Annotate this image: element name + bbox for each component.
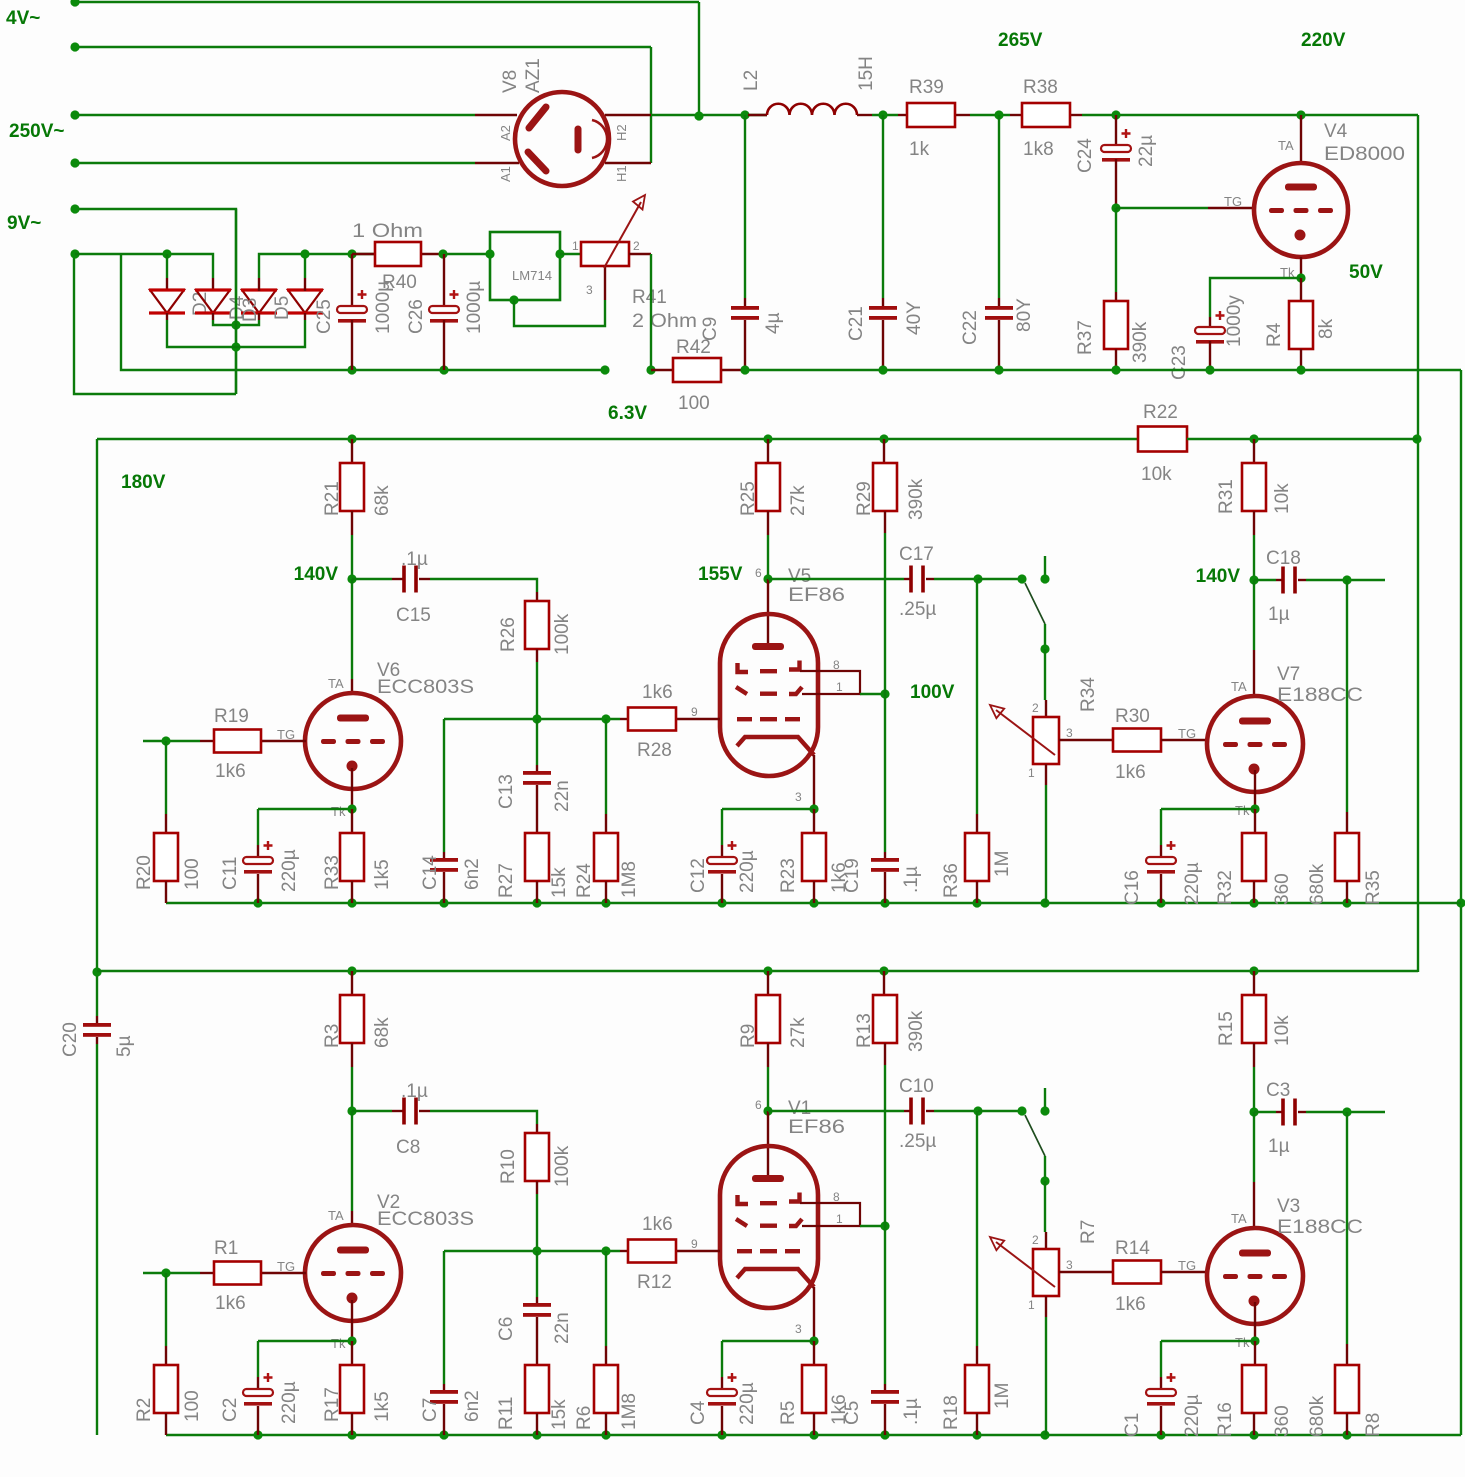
svg-text:C14: C14 — [420, 855, 441, 890]
svg-text:R24: R24 — [574, 863, 595, 898]
svg-text:V4: V4 — [1324, 121, 1348, 142]
wire cap to R26 — [430, 579, 537, 592]
svg-text:C18: C18 — [1266, 548, 1301, 569]
resistor R40 1 Ohm — [352, 221, 443, 293]
net 0V rail wire y=903 — [166, 902, 1461, 904]
svg-text:50V: 50V — [1349, 262, 1383, 283]
terminal 9V~ b — [70, 249, 79, 258]
capacitor C20 5µ — [60, 1016, 135, 1057]
wire blade to pot — [1044, 1156, 1046, 1181]
junction pot top — [1040, 1176, 1049, 1185]
capacitor C23 1000y — [1169, 295, 1245, 380]
svg-text:40Y: 40Y — [904, 301, 925, 335]
wire R39 to R38 — [970, 114, 1010, 116]
svg-text:1: 1 — [836, 1212, 843, 1226]
wire — [1253, 1112, 1255, 1182]
junction pentode anode — [763, 574, 772, 583]
junction C13 top — [532, 714, 541, 723]
svg-text:100k: 100k — [552, 613, 573, 655]
junction rail x=1254 — [1249, 434, 1258, 443]
wire V4 grid — [1116, 207, 1208, 209]
svg-text:R12: R12 — [637, 1272, 672, 1293]
resistor R24 1M8 — [574, 719, 640, 903]
resistor R10 100k — [498, 1124, 573, 1194]
junction rail x=1045 — [1040, 1430, 1049, 1439]
svg-text:1: 1 — [836, 680, 843, 694]
wire pentode g2 g1 tie — [800, 671, 860, 694]
svg-text:D5: D5 — [272, 296, 293, 320]
svg-text:80Y: 80Y — [1014, 298, 1035, 332]
svg-text:1k6: 1k6 — [1115, 1294, 1146, 1315]
resistor R28 1k6 grid stopper — [620, 682, 720, 761]
svg-text:R42: R42 — [676, 337, 711, 358]
svg-text:2 Ohm: 2 Ohm — [632, 311, 697, 332]
wire — [884, 694, 886, 852]
svg-text:1: 1 — [1028, 766, 1035, 780]
junction rail x=884 — [879, 434, 888, 443]
svg-text:R41: R41 — [632, 287, 667, 308]
net 250V~ wire top — [75, 114, 475, 116]
svg-text:R34: R34 — [1078, 677, 1099, 712]
resistor R5 1k6 — [778, 1341, 850, 1435]
junction rail x=885 — [880, 898, 889, 907]
capacitor C10 .25µ coupling — [768, 1076, 978, 1152]
svg-text:C22: C22 — [960, 310, 981, 345]
junction rail x=258 — [253, 898, 262, 907]
svg-text:R29: R29 — [854, 481, 875, 516]
svg-text:1M: 1M — [992, 851, 1013, 877]
wire — [1045, 785, 1047, 903]
wire R29 to screen node — [884, 533, 886, 694]
wire — [443, 719, 445, 852]
diode D4 — [195, 288, 248, 320]
svg-text:ECC803S: ECC803S — [377, 1209, 474, 1230]
svg-text:220µ: 220µ — [1182, 862, 1203, 905]
svg-text:R25: R25 — [738, 481, 759, 516]
capacitor C4 220µ — [688, 1341, 758, 1435]
junction C22 top — [994, 110, 1003, 119]
svg-text:.1µ: .1µ — [401, 549, 428, 570]
svg-text:C17: C17 — [899, 544, 934, 565]
junction V7 cathode — [1250, 1336, 1259, 1345]
junction B+ heater drop — [694, 111, 703, 120]
triode V3 E188CC — [1207, 1112, 1363, 1350]
svg-text:TA: TA — [328, 1208, 344, 1223]
junction C9 top — [740, 110, 749, 119]
svg-text:390k: 390k — [906, 478, 927, 520]
capacitor C3 1µ output coupling — [1254, 1080, 1385, 1157]
svg-text:1k6: 1k6 — [1115, 762, 1146, 783]
svg-text:A1: A1 — [498, 166, 513, 182]
wire R31 to output anode — [1253, 535, 1255, 580]
svg-text:V3: V3 — [1277, 1196, 1300, 1217]
svg-text:27k: 27k — [788, 1017, 809, 1048]
svg-text:V8: V8 — [500, 70, 521, 93]
wire C20 to bottom rail — [96, 1044, 98, 1435]
capacitor C24 22µ — [1075, 115, 1157, 208]
capacitor C19 .1µ — [842, 694, 922, 903]
svg-text:180V: 180V — [121, 472, 166, 493]
wire — [352, 1110, 392, 1112]
svg-text:6: 6 — [755, 566, 762, 580]
svg-text:R15: R15 — [1216, 1011, 1237, 1046]
svg-text:27k: 27k — [788, 485, 809, 516]
svg-text:6n2: 6n2 — [462, 858, 483, 890]
wire R40 to LM714 — [443, 253, 490, 255]
wire AC1 to D1 D2 anodes — [75, 254, 213, 278]
net B+ wire after rectifier — [651, 114, 767, 116]
junction anode node — [347, 574, 356, 583]
svg-text:R10: R10 — [498, 1149, 519, 1184]
junction output node — [1342, 1107, 1351, 1116]
svg-text:R6: R6 — [574, 1406, 595, 1430]
svg-text:10k: 10k — [1141, 464, 1172, 485]
potentiometer R41 2 Ohm — [572, 195, 697, 332]
resistor R35 680k — [1307, 580, 1384, 905]
resistor R23 1k6 — [778, 809, 850, 903]
svg-text:C5: C5 — [842, 1401, 863, 1425]
wire R41 pin2 drop — [650, 254, 652, 370]
resistor R39 1k — [898, 77, 970, 160]
svg-text:LM714: LM714 — [512, 269, 552, 283]
svg-text:1: 1 — [1028, 1298, 1035, 1312]
wire — [536, 1251, 538, 1297]
wire LM714 adj to R41 pin3 — [514, 300, 605, 326]
junction — [1111, 365, 1120, 374]
resistor R17 1k5 — [322, 1341, 393, 1435]
svg-text:4V~: 4V~ — [6, 8, 40, 29]
junction LM714 in — [485, 249, 494, 258]
potentiometer R34 volume — [990, 649, 1113, 903]
svg-text:680k: 680k — [1307, 863, 1328, 905]
svg-text:TA: TA — [1231, 1211, 1247, 1226]
wire — [1044, 1181, 1046, 1232]
junction output anode — [1249, 1107, 1258, 1116]
svg-text:R28: R28 — [637, 740, 672, 761]
svg-text:360: 360 — [1272, 1405, 1293, 1437]
svg-text:R37: R37 — [1075, 320, 1096, 355]
svg-text:AZ1: AZ1 — [523, 58, 544, 93]
wire cap to R26 — [430, 1111, 537, 1124]
wire cathode row V6 — [258, 808, 352, 810]
switch upper contact stub — [1044, 556, 1046, 579]
junction pot top — [1040, 644, 1049, 653]
wire — [934, 1110, 978, 1112]
capacitor C16 220µ — [1122, 809, 1203, 905]
svg-text:Tk: Tk — [1235, 1335, 1250, 1350]
svg-text:220µ: 220µ — [737, 1382, 758, 1425]
svg-text:C8: C8 — [396, 1137, 420, 1158]
junction — [1296, 365, 1305, 374]
svg-text:R23: R23 — [778, 858, 799, 893]
wire D1 anode lead — [166, 254, 168, 278]
wire — [1346, 1112, 1348, 1344]
svg-text:1k6: 1k6 — [215, 1293, 246, 1314]
wire D1 D4 cathodes — [166, 313, 168, 320]
svg-text:TA: TA — [1231, 679, 1247, 694]
resistor R31 10k — [1216, 439, 1293, 535]
svg-text:1000µ: 1000µ — [464, 281, 485, 334]
junction grid input — [161, 736, 170, 745]
wire cathode row V6 — [258, 1340, 352, 1342]
svg-text:C15: C15 — [396, 605, 431, 626]
wire — [976, 1111, 978, 1346]
svg-text:100: 100 — [678, 393, 710, 414]
svg-text:R16: R16 — [1215, 1402, 1236, 1437]
svg-text:.1µ: .1µ — [401, 1081, 428, 1102]
wire — [860, 1225, 885, 1227]
svg-text:3: 3 — [1066, 1258, 1073, 1272]
wire heater drop from 4V~ to junction — [698, 2, 700, 116]
capacitor C22 80Y — [960, 298, 1035, 370]
junction rail x=606 — [601, 1430, 610, 1439]
junction D5 anode — [300, 249, 309, 258]
svg-text:TA: TA — [1278, 138, 1294, 153]
net 265V wire to V4 — [1082, 114, 1418, 116]
switch upper contact stub — [1044, 1088, 1046, 1111]
svg-text:H1: H1 — [614, 165, 629, 182]
svg-text:TA: TA — [328, 676, 344, 691]
junction anode node — [347, 1106, 356, 1115]
svg-text:1k6: 1k6 — [642, 1214, 673, 1235]
svg-text:R22: R22 — [1143, 402, 1178, 423]
svg-text:TG: TG — [277, 727, 295, 742]
wire — [1045, 1317, 1047, 1435]
svg-text:R1: R1 — [214, 1238, 238, 1259]
junction rail x=885 — [880, 1430, 889, 1439]
wire R25 to pentode anode — [767, 1067, 769, 1111]
svg-text:9V~: 9V~ — [7, 213, 41, 234]
triode V7 E188CC — [1207, 580, 1363, 818]
capacitor C6 22n — [496, 1251, 573, 1365]
svg-text:C20: C20 — [60, 1022, 81, 1057]
junction rail x=1254 — [1249, 898, 1258, 907]
svg-text:9: 9 — [691, 705, 698, 719]
svg-text:220µ: 220µ — [1182, 1394, 1203, 1437]
junction pentode cathode — [809, 804, 818, 813]
svg-text:3: 3 — [1066, 726, 1073, 740]
svg-text:C12: C12 — [688, 858, 709, 893]
svg-text:390k: 390k — [906, 1010, 927, 1052]
wire — [1306, 579, 1385, 581]
wire — [768, 1110, 904, 1112]
wire pentode g2 g1 tie — [800, 1203, 860, 1226]
wire cathode row pentode — [722, 1340, 814, 1342]
junction rail x=1347 — [1342, 898, 1351, 907]
svg-text:1µ: 1µ — [1268, 1136, 1290, 1157]
junction bridge AC mid — [231, 320, 240, 329]
svg-text:1 Ohm: 1 Ohm — [352, 221, 423, 242]
svg-text:2: 2 — [1032, 701, 1039, 715]
capacitor C13 22n — [496, 719, 573, 833]
wire — [143, 1272, 200, 1274]
resistor R15 10k — [1216, 971, 1293, 1067]
wire 50V node to C23 — [1210, 278, 1301, 317]
svg-text:C16: C16 — [1122, 870, 1143, 905]
svg-text:140V: 140V — [1196, 566, 1241, 587]
net 9V~ wire top — [75, 209, 236, 394]
resistor R3 68k — [322, 971, 393, 1067]
switch blade — [1025, 1115, 1045, 1156]
net 4V~ wire bottom — [75, 46, 651, 48]
wire R26 to grid row — [536, 1194, 538, 1251]
net 220V right drop wire — [1417, 115, 1419, 972]
wire — [1254, 579, 1276, 581]
svg-text:.25µ: .25µ — [899, 1131, 936, 1152]
svg-text:R38: R38 — [1023, 77, 1058, 98]
svg-text:.25µ: .25µ — [899, 599, 936, 620]
svg-text:V7: V7 — [1277, 664, 1300, 685]
junction output anode — [1249, 575, 1258, 584]
rectifier tube V8 AZ1 — [475, 58, 651, 186]
resistor R14 1k6 grid stopper — [1113, 1238, 1207, 1315]
junction rail x=884 — [879, 966, 888, 975]
svg-text:1: 1 — [572, 239, 579, 253]
svg-text:C2: C2 — [220, 1398, 241, 1422]
svg-text:C25: C25 — [314, 299, 335, 334]
wire — [1346, 580, 1348, 812]
capacitor C12 220µ — [688, 809, 758, 903]
resistor R1 1k6 grid stopper — [143, 1238, 261, 1314]
wire L2 to R39 — [872, 114, 898, 116]
wire grid row — [444, 1250, 620, 1252]
resistor R25 27k — [738, 439, 809, 535]
svg-text:680k: 680k — [1307, 1395, 1328, 1437]
wire — [934, 578, 978, 580]
svg-text:1M: 1M — [992, 1383, 1013, 1409]
svg-text:6.3V: 6.3V — [608, 403, 647, 424]
wire rectified out — [305, 253, 375, 255]
svg-text:R5: R5 — [778, 1401, 799, 1425]
svg-text:R4: R4 — [1264, 322, 1285, 347]
wire grid row — [444, 718, 620, 720]
pentode V5 EF86 — [691, 566, 845, 804]
wire heater to V8 H pins — [650, 47, 652, 163]
junction rail x=352 — [347, 1430, 356, 1439]
svg-text:1M8: 1M8 — [619, 861, 640, 898]
wire — [143, 740, 200, 742]
resistor R16 360 — [1215, 1341, 1293, 1437]
resistor R6 1M8 — [574, 1251, 640, 1435]
svg-text:V5: V5 — [788, 566, 811, 587]
svg-text:R3: R3 — [322, 1024, 343, 1048]
svg-text:C26: C26 — [406, 299, 427, 334]
svg-text:Tk: Tk — [331, 804, 346, 819]
junction rail x=977 — [972, 1430, 981, 1439]
svg-text:3: 3 — [795, 1322, 802, 1336]
triode V2 ECC803S — [261, 1111, 474, 1351]
resistor R20 100 — [134, 741, 203, 903]
svg-text:R31: R31 — [1216, 479, 1237, 514]
wire — [884, 1226, 886, 1384]
wire cathode row pentode — [722, 808, 814, 810]
junction rail x=768 — [763, 434, 772, 443]
resistor R33 1k5 — [322, 809, 393, 903]
wire D3 top lead — [259, 254, 305, 278]
wire — [860, 693, 885, 695]
svg-text:.1µ: .1µ — [901, 866, 922, 893]
wire C22 top lead — [998, 115, 1000, 298]
junction V6 cathode — [347, 1336, 356, 1345]
svg-text:3: 3 — [586, 283, 593, 297]
junction rail x=768 — [763, 966, 772, 975]
svg-text:R14: R14 — [1115, 1238, 1150, 1259]
junction coupling out — [973, 574, 982, 583]
wire — [976, 579, 978, 814]
svg-text:.1µ: .1µ — [901, 1398, 922, 1425]
wire pentode cathode pin3 — [813, 1287, 815, 1341]
wire — [1306, 1111, 1385, 1113]
junction rail x=1254 — [1249, 966, 1258, 975]
diode D5 — [272, 288, 323, 320]
wire R31 to output anode — [1253, 1067, 1255, 1112]
svg-text:100V: 100V — [910, 682, 955, 703]
svg-text:ED8000: ED8000 — [1324, 144, 1405, 165]
junction rail x=537 — [532, 1430, 541, 1439]
svg-text:R11: R11 — [496, 1397, 517, 1430]
svg-text:R13: R13 — [854, 1013, 875, 1048]
junction 220V rail R22 — [1412, 434, 1421, 443]
junction screen node — [880, 1221, 889, 1230]
junction rail x=1161 — [1156, 1430, 1165, 1439]
svg-text:265V: 265V — [998, 30, 1043, 51]
svg-text:1k5: 1k5 — [372, 1391, 393, 1422]
wire — [1253, 580, 1255, 650]
svg-text:R30: R30 — [1115, 706, 1150, 727]
junction C25 bottom — [347, 365, 356, 374]
svg-text:100: 100 — [182, 1390, 203, 1422]
wire C21 top lead — [882, 115, 884, 298]
wire cathode row output — [1161, 808, 1255, 810]
junction — [1205, 365, 1214, 374]
svg-text:V1: V1 — [788, 1098, 811, 1119]
wire DC minus rail — [121, 254, 605, 370]
junction switch contact — [1040, 574, 1049, 583]
wire R25 to pentode anode — [767, 535, 769, 579]
svg-text:6: 6 — [755, 1098, 762, 1112]
svg-text:C6: C6 — [496, 1317, 517, 1341]
wire — [768, 578, 904, 580]
wire R to anode node — [351, 535, 353, 579]
svg-text:9: 9 — [691, 1237, 698, 1251]
junction right drop mid rail — [1456, 898, 1465, 907]
wire blade to pot — [1044, 624, 1046, 649]
resistor R19 1k6 grid stopper — [143, 706, 261, 782]
junction rail x=1045 — [1040, 898, 1049, 907]
terminal 9V~ a — [70, 204, 79, 213]
wire — [721, 1341, 723, 1377]
triode V4 ED8000 — [1224, 115, 1405, 280]
svg-text:R19: R19 — [214, 706, 249, 727]
svg-text:R18: R18 — [941, 1395, 962, 1430]
diode D3 — [240, 288, 277, 322]
junction LM714 adj — [509, 295, 518, 304]
wire D2 D3 cathodes — [212, 313, 214, 320]
junction R24 top — [601, 1246, 610, 1255]
resistor R21 68k — [322, 439, 393, 535]
junction V4 cathode — [1296, 273, 1305, 282]
junction rail x=722 — [717, 1430, 726, 1439]
wire — [605, 1251, 607, 1346]
svg-text:C21: C21 — [846, 306, 867, 341]
junction — [740, 365, 749, 374]
junction R24 top — [601, 714, 610, 723]
junction rail x=814 — [809, 1430, 818, 1439]
svg-text:H2: H2 — [614, 124, 629, 141]
svg-text:C1: C1 — [1122, 1413, 1143, 1437]
wire R26 to grid row — [536, 662, 538, 719]
capacitor C9 4µ — [700, 298, 784, 370]
